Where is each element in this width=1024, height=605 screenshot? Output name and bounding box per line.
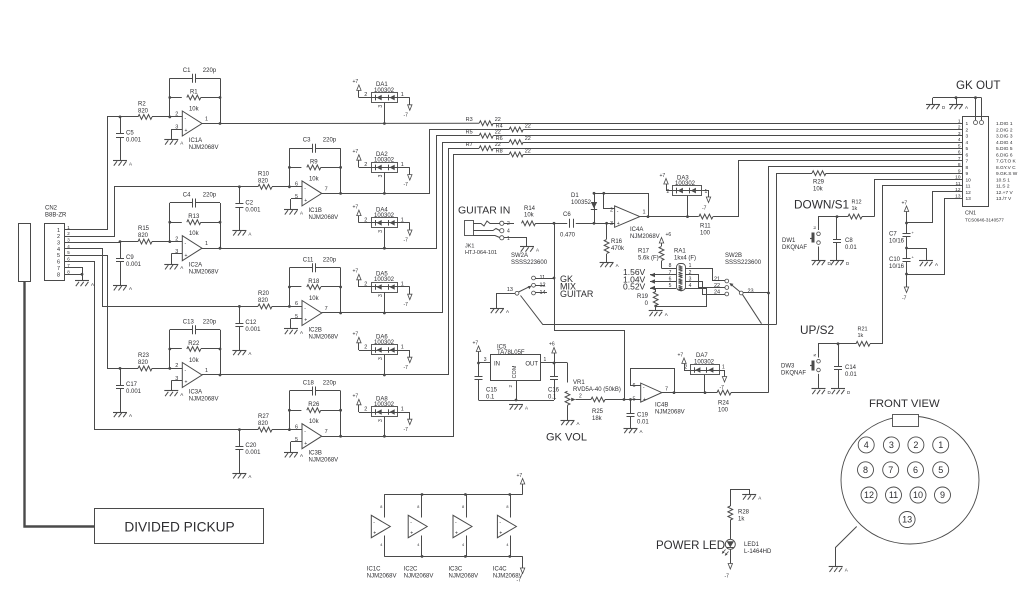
jack JK1 HTJ-064-101 <box>465 221 474 236</box>
keying tab <box>893 415 919 427</box>
svg-text:NJM2068V: NJM2068V <box>367 574 397 580</box>
svg-text:C12: C12 <box>245 320 257 326</box>
-7 supply <box>728 564 732 570</box>
front-view pin 6 <box>908 462 924 478</box>
wire <box>359 350 372 352</box>
svg-text:DA7: DA7 <box>696 353 708 359</box>
svg-text:A: A <box>577 421 580 426</box>
front-view pin 10 <box>910 487 926 503</box>
svg-text:C11: C11 <box>303 257 314 263</box>
svg-text:5.6k (F): 5.6k (F) <box>638 255 659 261</box>
svg-text:8: 8 <box>380 505 382 509</box>
resistor R21 1k <box>856 341 870 346</box>
op-amp IC2C NJM2068V <box>408 515 427 537</box>
svg-text:SSSS223600: SSSS223600 <box>511 260 548 266</box>
wire <box>576 223 615 225</box>
svg-text:+7: +7 <box>517 473 523 479</box>
pushbutton DW1 DKQNAF <box>817 232 821 236</box>
connector body front view <box>841 416 979 544</box>
svg-text:A: A <box>300 453 303 458</box>
wire CN2 pin1 to IC1A input <box>74 117 120 230</box>
wire RA1 pin1 to SW2B <box>692 269 725 281</box>
svg-text:1: 1 <box>722 365 725 371</box>
wire <box>289 391 291 430</box>
CN1 pin 13 <box>955 198 963 200</box>
capacitor C1 220p <box>170 78 192 80</box>
svg-text:R16: R16 <box>611 239 623 245</box>
front-view pin 5 <box>933 462 949 478</box>
svg-text:OUT: OUT <box>525 362 538 368</box>
svg-text:A: A <box>300 210 303 215</box>
wire supply stubs <box>384 495 386 518</box>
svg-text:100352: 100352 <box>571 200 592 206</box>
svg-text:IC3C: IC3C <box>449 567 463 573</box>
ground <box>742 494 756 496</box>
svg-text:C13: C13 <box>183 319 195 325</box>
op-amp IC4C NJM2068V <box>497 515 516 537</box>
svg-text:+: + <box>455 531 458 537</box>
wire IC4B output <box>662 392 717 394</box>
svg-text:C14: C14 <box>845 365 857 371</box>
svg-text:R24: R24 <box>718 401 730 407</box>
wire <box>169 203 171 242</box>
svg-text:SW2A: SW2A <box>511 253 528 259</box>
svg-text:22: 22 <box>495 117 501 123</box>
svg-text:7: 7 <box>958 156 961 162</box>
wire SW2A pin11 tap <box>535 278 554 280</box>
svg-text:A: A <box>965 105 968 110</box>
ground <box>926 104 940 106</box>
svg-text:+: + <box>304 198 307 204</box>
wire <box>398 167 410 169</box>
wire supply stubs <box>510 495 512 518</box>
svg-text:7: 7 <box>665 387 668 393</box>
svg-text:C10: C10 <box>889 257 901 263</box>
svg-text:8: 8 <box>958 162 961 168</box>
wire <box>384 355 386 375</box>
svg-text:DOWN/S1: DOWN/S1 <box>794 198 849 212</box>
svg-text:IC1B: IC1B <box>309 208 322 214</box>
svg-text:R19: R19 <box>637 294 649 300</box>
svg-text:0.001: 0.001 <box>126 389 142 395</box>
wire <box>666 190 673 192</box>
wire output row 4 <box>341 143 510 313</box>
svg-text:6: 6 <box>958 150 961 156</box>
svg-text:C5: C5 <box>126 131 134 137</box>
svg-text:100302: 100302 <box>374 158 395 164</box>
svg-text:4: 4 <box>507 229 510 235</box>
svg-text:C1: C1 <box>183 68 191 74</box>
svg-text:R2: R2 <box>138 101 146 107</box>
svg-text:-7: -7 <box>404 427 409 433</box>
svg-text:3.DIG 3: 3.DIG 3 <box>996 134 1013 140</box>
svg-text:7.GT.O K: 7.GT.O K <box>996 159 1017 165</box>
-7 supply <box>408 357 412 363</box>
potentiometer VR1 RVD5A-40 (50kB) <box>567 363 569 383</box>
wire SW2B lever rail diagonal <box>743 295 762 324</box>
wire <box>359 167 372 169</box>
wire <box>322 193 341 195</box>
-7 supply <box>722 377 726 383</box>
svg-text:C9: C9 <box>126 255 134 261</box>
svg-text:R14: R14 <box>524 206 536 212</box>
capacitor C10 10/16 <box>903 258 911 260</box>
svg-text:3: 3 <box>889 440 894 450</box>
connector CN2 B8B-ZR <box>45 224 65 281</box>
wire <box>730 520 732 539</box>
wire OUT node <box>541 362 568 364</box>
svg-text:10k: 10k <box>309 296 320 302</box>
svg-text:6: 6 <box>966 152 969 158</box>
RA1 pin 7/2 <box>668 274 676 276</box>
svg-text:A: A <box>248 351 251 356</box>
svg-text:5: 5 <box>295 437 298 443</box>
wire <box>730 549 732 563</box>
svg-text:1: 1 <box>205 117 208 123</box>
svg-text:220p: 220p <box>203 193 217 199</box>
svg-text:1.DIG 1: 1.DIG 1 <box>996 121 1013 127</box>
wire row10 (S1) <box>875 180 956 217</box>
wire <box>202 248 220 250</box>
svg-text:+7: +7 <box>678 353 684 359</box>
svg-text:0.001: 0.001 <box>245 207 261 213</box>
wire <box>291 318 302 320</box>
capacitor C7 10/16 <box>903 233 911 235</box>
CN2 pin 7 <box>64 267 74 269</box>
capacitor C14 0.01 <box>838 344 840 367</box>
wire <box>202 374 220 376</box>
svg-text:R1: R1 <box>190 90 198 96</box>
wire <box>289 148 291 187</box>
svg-text:CN2: CN2 <box>45 206 58 212</box>
svg-text:SSSS223600: SSSS223600 <box>725 260 762 266</box>
svg-text:DW1: DW1 <box>782 238 796 244</box>
resistor R17 5.6k (F) <box>661 243 663 246</box>
svg-text:100302: 100302 <box>374 88 395 94</box>
svg-text:100302: 100302 <box>675 181 696 187</box>
svg-text:11: 11 <box>956 181 961 187</box>
wire CN2 pin3 to IC2A input <box>74 241 121 244</box>
svg-text:L-1464HD: L-1464HD <box>744 549 772 555</box>
svg-text:+: + <box>617 221 620 227</box>
svg-text:100302: 100302 <box>374 340 395 346</box>
wire row11 (S2) <box>883 186 956 344</box>
svg-text:+: + <box>185 380 188 386</box>
svg-text:21: 21 <box>714 276 720 282</box>
svg-text:0.01: 0.01 <box>845 372 857 378</box>
svg-text:+7: +7 <box>473 341 479 347</box>
svg-text:4: 4 <box>506 543 508 547</box>
svg-text:2: 2 <box>966 128 969 134</box>
op-amp IC4B NJM2068V <box>641 383 662 402</box>
svg-text:10/16: 10/16 <box>889 264 905 270</box>
resistor R1 10k <box>170 97 182 99</box>
svg-text:10k: 10k <box>309 176 320 182</box>
wire CN2 pin4 to IC2B input <box>74 249 239 307</box>
svg-text:A: A <box>845 568 848 573</box>
svg-text:1: 1 <box>205 368 208 374</box>
svg-text:24: 24 <box>714 289 720 295</box>
wire COM to ground <box>516 381 518 400</box>
wire <box>359 286 372 288</box>
svg-text:0.001: 0.001 <box>245 327 261 333</box>
svg-text:4: 4 <box>864 440 869 450</box>
wire <box>819 217 849 231</box>
svg-text:C15: C15 <box>486 388 498 394</box>
svg-text:10k: 10k <box>524 213 535 219</box>
wire DA3 to output <box>687 196 689 217</box>
svg-text:2: 2 <box>579 394 582 400</box>
wire row7 (GT.O) <box>739 161 956 217</box>
svg-text:9.GK.S W: 9.GK.S W <box>996 171 1018 177</box>
CN1 pin 1 <box>955 123 963 125</box>
svg-text:3: 3 <box>958 131 961 137</box>
svg-text:NJM2068V: NJM2068V <box>309 335 339 341</box>
-7 supply <box>408 175 412 181</box>
svg-text:C16: C16 <box>548 388 560 394</box>
capacitor C19 0.01 <box>630 400 632 414</box>
op-amp IC1B NJM2068V <box>302 181 322 206</box>
RA1 pin 6/3 <box>668 281 676 283</box>
op-amp IC4A NJM2068V <box>615 206 640 227</box>
wire IC4A feedback <box>594 194 649 217</box>
svg-text:GUITAR: GUITAR <box>560 289 594 299</box>
svg-text:10/16: 10/16 <box>889 239 905 245</box>
svg-text:9: 9 <box>966 171 969 177</box>
wire buffer V+ rail <box>384 494 522 496</box>
op-amp IC2A NJM2068V <box>182 236 202 261</box>
svg-text:C19: C19 <box>637 413 649 419</box>
svg-text:8: 8 <box>506 505 508 509</box>
svg-text:820: 820 <box>138 108 149 114</box>
wire RA1 pin5 down <box>656 289 669 293</box>
ground <box>113 412 127 414</box>
ground <box>949 104 963 106</box>
svg-text:LED1: LED1 <box>744 542 760 548</box>
svg-text:A: A <box>536 248 539 253</box>
capacitor C9 0.001 <box>119 240 122 243</box>
svg-text:12.+7 V: 12.+7 V <box>996 190 1013 196</box>
svg-text:A: A <box>616 263 619 268</box>
svg-text:2: 2 <box>689 270 692 276</box>
wire CN2 pin6 to IC3B input <box>74 262 239 430</box>
svg-text:C6: C6 <box>563 212 571 218</box>
svg-text:1: 1 <box>958 118 961 124</box>
svg-text:3: 3 <box>689 277 692 283</box>
svg-text:COM: COM <box>512 365 518 378</box>
svg-text:IC1A: IC1A <box>189 138 202 144</box>
svg-text:-7: -7 <box>404 182 409 188</box>
svg-text:-7: -7 <box>404 112 409 118</box>
op-amp IC2B NJM2068V <box>302 301 322 326</box>
svg-text:R27: R27 <box>258 414 270 420</box>
svg-text:10: 10 <box>966 177 972 183</box>
switch lever <box>519 287 530 292</box>
svg-text:A: A <box>248 474 251 479</box>
svg-text:A: A <box>129 162 132 167</box>
svg-text:+: + <box>185 128 188 134</box>
CN1 pin 2 <box>955 129 963 131</box>
front-view pin 8 <box>858 462 874 478</box>
resistor R22 10k <box>170 348 182 350</box>
wire <box>384 103 386 124</box>
svg-text:RA1: RA1 <box>674 249 686 255</box>
resistor R26 10k <box>289 410 301 412</box>
wire <box>684 370 690 372</box>
-7 supply <box>408 230 412 236</box>
svg-text:GK VOL: GK VOL <box>546 432 587 444</box>
svg-text:C3: C3 <box>303 138 311 144</box>
svg-text:22: 22 <box>525 136 531 142</box>
CN1 pin 7 <box>955 160 963 162</box>
wire <box>720 371 725 377</box>
svg-text:+: + <box>410 531 413 537</box>
capacitor C16 0.1 <box>554 363 556 376</box>
wire SW2B common <box>743 292 768 294</box>
svg-text:5: 5 <box>966 146 969 152</box>
resistor R16 470k <box>606 223 608 239</box>
svg-text:0.1: 0.1 <box>548 394 557 400</box>
svg-text:1: 1 <box>966 121 969 127</box>
LED LED1 L-1464HD <box>725 539 735 549</box>
diode pair DA7 100302 <box>691 365 720 375</box>
ground <box>75 280 89 282</box>
svg-text:R10: R10 <box>258 171 270 177</box>
ground <box>164 390 178 392</box>
wire RA1 pin3 to SW2B <box>692 282 725 295</box>
svg-text:+7: +7 <box>353 149 359 155</box>
svg-text:NJM2068V: NJM2068V <box>404 574 434 580</box>
wire <box>522 484 524 495</box>
wire <box>818 374 820 389</box>
svg-text:B8B-ZR: B8B-ZR <box>45 213 67 219</box>
svg-text:18k: 18k <box>592 416 603 422</box>
capacitor C12 0.001 <box>238 305 241 308</box>
svg-text:1k: 1k <box>852 206 858 212</box>
svg-text:R11: R11 <box>700 224 711 230</box>
op-amp IC3C NJM2068V <box>453 515 472 537</box>
wire guitar signal down to IC4B <box>555 223 625 399</box>
wire <box>289 268 291 307</box>
RA1 pin 8/1 <box>668 268 676 270</box>
svg-text:+7: +7 <box>353 204 359 210</box>
front-view pin 3 <box>883 437 899 453</box>
svg-text:GK OUT: GK OUT <box>956 79 1000 92</box>
wire <box>522 556 524 568</box>
svg-text:IC1C: IC1C <box>367 567 381 573</box>
svg-text:FRONT VIEW: FRONT VIEW <box>869 398 940 410</box>
svg-text:6.DIG 6: 6.DIG 6 <box>996 152 1013 158</box>
svg-text:C7: C7 <box>889 232 897 238</box>
svg-text:1: 1 <box>507 236 510 242</box>
wire <box>322 436 341 438</box>
svg-text:11: 11 <box>889 490 898 500</box>
svg-text:NJM2068V: NJM2068V <box>189 270 219 276</box>
svg-text:DKQNAF: DKQNAF <box>781 371 806 377</box>
svg-text:GUITAR IN: GUITAR IN <box>458 205 510 217</box>
capacitor C18 220p <box>289 390 312 392</box>
svg-text:13: 13 <box>966 196 972 202</box>
svg-text:10k: 10k <box>189 231 200 237</box>
front-view pin 9 <box>935 487 951 503</box>
svg-text:R23: R23 <box>138 353 150 359</box>
svg-text:2: 2 <box>57 234 60 240</box>
svg-text:7: 7 <box>57 266 60 272</box>
ground <box>113 285 127 287</box>
svg-text:4: 4 <box>689 283 692 289</box>
svg-text:C18: C18 <box>303 381 315 387</box>
svg-text:7: 7 <box>325 429 328 435</box>
diode pair DA2 100302 <box>364 152 404 178</box>
wire <box>359 97 372 99</box>
svg-text:820: 820 <box>258 298 269 304</box>
svg-text:R15: R15 <box>138 226 150 232</box>
svg-text:7: 7 <box>888 465 893 475</box>
svg-text:10: 10 <box>955 175 961 181</box>
front-view pin 12 <box>861 487 877 503</box>
ground <box>829 566 843 568</box>
capacitor C15 0.1 <box>475 376 483 378</box>
wire <box>398 412 410 414</box>
svg-text:NJM2068V: NJM2068V <box>189 145 219 151</box>
wire <box>291 198 302 200</box>
svg-text:820: 820 <box>258 178 269 184</box>
svg-text:13: 13 <box>902 515 912 525</box>
ground <box>232 230 246 232</box>
svg-text:-7: -7 <box>404 365 409 371</box>
svg-text:100: 100 <box>700 231 711 237</box>
capacitor C3 220p <box>289 148 312 150</box>
resistor R5 22 <box>479 133 493 138</box>
svg-text:220p: 220p <box>323 138 337 144</box>
ground <box>284 209 298 211</box>
svg-text:220p: 220p <box>323 381 337 387</box>
ground <box>624 428 638 430</box>
ground <box>164 264 178 266</box>
resistor array RA1 1kx4 (F) <box>677 264 686 291</box>
capacitor C6 0.470 <box>569 219 571 228</box>
wire R17 to RA1 pin 8 <box>662 268 669 270</box>
-7 supply <box>408 105 412 111</box>
front-view pin 13 <box>899 512 915 528</box>
wire <box>523 142 955 144</box>
wire RA1 bottom tap to pin4 <box>656 289 707 307</box>
wire <box>398 350 410 352</box>
wire <box>862 216 875 218</box>
svg-text:11.S 2: 11.S 2 <box>996 184 1010 190</box>
wire rail <box>479 400 555 402</box>
wire <box>605 399 641 401</box>
svg-text:3: 3 <box>378 105 384 108</box>
svg-text:+: + <box>304 318 307 324</box>
resistor R9 10k <box>289 167 301 169</box>
svg-text:NJM2068V: NJM2068V <box>655 409 685 415</box>
resistor R24 100 <box>717 390 731 395</box>
svg-text:R8: R8 <box>496 148 503 154</box>
svg-text:4: 4 <box>462 543 464 547</box>
svg-text:10k: 10k <box>189 107 200 113</box>
wire <box>384 172 386 193</box>
svg-text:C4: C4 <box>183 193 191 199</box>
RA1 pin 5/4 <box>668 288 676 290</box>
svg-text:220p: 220p <box>323 257 337 263</box>
resistor R15 820 <box>120 241 138 243</box>
wire <box>359 222 372 224</box>
ground <box>164 139 178 141</box>
svg-text:22: 22 <box>495 142 501 148</box>
wire IC4A output <box>640 216 699 218</box>
svg-text:A: A <box>129 413 132 418</box>
